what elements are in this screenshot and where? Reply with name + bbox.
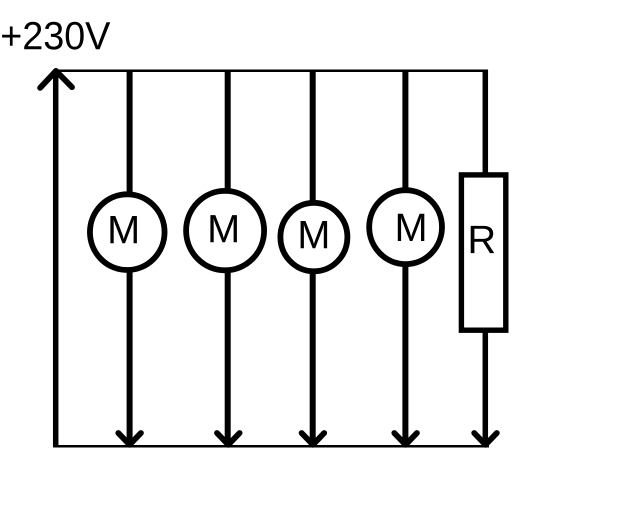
arrow A3 down: [302, 433, 325, 445]
wire top bus: [53, 70, 488, 73]
wire bottom bus: [53, 445, 489, 448]
wire supply left: [53, 72, 59, 447]
motor M3 circle: [280, 203, 347, 271]
resistor R body: [461, 175, 505, 330]
wire W3: [310, 70, 316, 446]
wire W2: [225, 70, 231, 446]
arrow supply up: [40, 71, 72, 88]
arrow A5 down: [474, 433, 497, 445]
motor M3 letter: [301, 221, 328, 248]
motor M4 letter: [398, 214, 425, 241]
wire W1: [127, 70, 133, 446]
wire W4: [402, 70, 408, 446]
arrow A2 down: [217, 433, 240, 445]
motor M4 circle: [369, 190, 442, 264]
motor M1 letter: [110, 216, 136, 243]
motor M2 circle: [186, 191, 264, 270]
wire W5: [483, 70, 489, 446]
arrow A4 down: [394, 433, 417, 445]
resistor R letter: [471, 226, 495, 253]
motor M2 letter: [210, 215, 237, 242]
node +230V label: [2, 22, 110, 50]
motor M1 circle: [90, 194, 165, 270]
arrow A1 down: [118, 433, 141, 445]
